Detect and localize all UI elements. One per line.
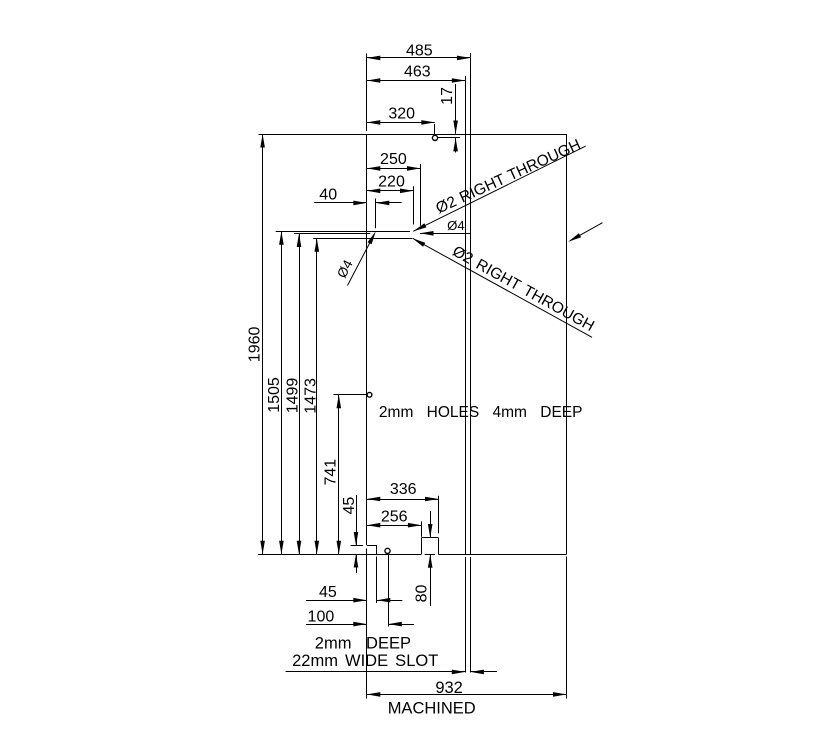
hole at bottom edge — [385, 548, 390, 553]
dimension 741 top arrow — [337, 395, 342, 409]
extension line for 320/hole — [434, 124, 436, 135]
dimension 463 left arrow — [367, 78, 381, 83]
view arrow head — [568, 233, 581, 242]
slot leader left arrow — [452, 670, 466, 675]
part right edge — [566, 134, 568, 554]
dimension 485 line — [367, 57, 471, 59]
vertical slot right line extension below — [470, 557, 472, 673]
extension line for 40 — [375, 199, 377, 229]
svg-text:1473: 1473 — [303, 378, 320, 414]
dimension 932 line — [367, 694, 567, 696]
dimension 220 line — [367, 190, 414, 192]
dimension 220 left arrow — [367, 189, 381, 194]
dimension 1505 top arrow — [279, 231, 284, 245]
dimension 45h left tail — [306, 600, 367, 602]
dimension 1499 line — [299, 234, 301, 555]
dimension 250 line — [367, 168, 421, 170]
part top edge — [259, 134, 567, 136]
extension line for 45v step — [351, 545, 364, 547]
leader Ø4 diagonal line — [348, 234, 375, 285]
svg-text:2mm DEEP: 2mm DEEP — [315, 635, 411, 653]
dimension 1499 top arrow — [297, 234, 302, 248]
dimension 1473 line — [316, 238, 318, 554]
dimension 80 lower arrow — [428, 554, 433, 568]
dimension 250 left arrow — [367, 166, 381, 171]
hole at top edge — [432, 135, 437, 140]
dimension 256 line — [367, 525, 422, 527]
svg-text:485: 485 — [406, 43, 433, 60]
leader Ø2 lower line — [412, 238, 592, 337]
extension below step — [376, 557, 378, 604]
slot leader left line — [286, 671, 465, 673]
extension line for 336 — [438, 496, 440, 534]
dimension 336 right arrow — [425, 497, 439, 502]
hole mid-left (741) — [367, 392, 372, 397]
dimension 741 bottom arrow — [337, 541, 342, 555]
svg-text:Ø4: Ø4 — [447, 218, 465, 233]
extension line at hole centre (17) — [438, 137, 460, 139]
vertical slot left line extension below — [465, 557, 467, 673]
view arrow line — [570, 223, 603, 241]
leader Ø4 horizontal line — [420, 233, 471, 235]
bottom slot pocket right edge — [438, 538, 440, 555]
dimension 45h right tail — [376, 600, 402, 602]
leader Ø2 upper arrow — [413, 223, 426, 231]
svg-text:MACHINED: MACHINED — [388, 700, 476, 718]
dimension 45v upper arrow — [354, 532, 359, 546]
extension line for 741 hole — [334, 394, 367, 396]
svg-text:2mm HOLES 4mm DEEP: 2mm HOLES 4mm DEEP — [379, 404, 583, 421]
bottom slot pocket left edge — [421, 538, 423, 555]
dimension 320 left arrow — [367, 120, 381, 125]
dimension 256 left arrow — [367, 523, 381, 528]
dimension 1960 bottom arrow — [260, 541, 265, 555]
leader Ø2 upper line — [413, 146, 585, 231]
dimension 45h right arrow — [377, 598, 391, 603]
vertical slot right line — [470, 53, 472, 554]
groove line B (1499) — [294, 233, 370, 235]
extension line for 250 — [420, 164, 422, 226]
groove line C (1473) — [313, 238, 412, 240]
vertical slot left line — [465, 76, 467, 554]
dimension 485 left arrow — [367, 56, 381, 61]
dimension 220 right arrow — [400, 189, 414, 194]
dimension 1505 line — [281, 231, 283, 554]
dimension 320 right arrow — [421, 120, 435, 125]
slot leader right arrow — [470, 670, 484, 675]
svg-text:45: 45 — [319, 584, 337, 601]
dimension 17 lower line — [455, 138, 457, 152]
dimension 40 left tail — [314, 202, 367, 204]
dimension 80 lower line — [430, 555, 432, 607]
dimension 100 right tail — [388, 624, 414, 626]
extension below bottom hole — [388, 554, 390, 627]
part bottom edge right — [438, 554, 566, 556]
dimension 1960 top arrow — [260, 134, 265, 148]
dimension 40 right arrow — [376, 201, 390, 206]
extension tick at bottom of slot (80) — [425, 554, 435, 556]
dimension 80 upper line — [430, 511, 432, 537]
extension line for 256 — [421, 521, 423, 536]
svg-text:463: 463 — [404, 64, 431, 81]
dimension 40 right tail — [376, 202, 402, 204]
leader Ø2 lower arrow — [412, 238, 425, 247]
dimension 1473 bottom arrow — [315, 541, 320, 555]
dimension 463 right arrow — [452, 78, 466, 83]
svg-text:250: 250 — [380, 151, 407, 168]
svg-text:80: 80 — [414, 585, 431, 603]
dimension 40 left arrow — [353, 201, 367, 206]
bottom-left step horizontal edge — [367, 545, 376, 547]
leader Ø4 horizontal arrow — [420, 231, 434, 236]
dimension 932 right arrow — [553, 692, 567, 697]
svg-text:17: 17 — [439, 87, 456, 105]
dimension 45h left arrow — [353, 598, 367, 603]
svg-text:256: 256 — [381, 508, 408, 525]
dimension 1960 line — [262, 134, 264, 554]
extension below right edge — [566, 557, 568, 699]
svg-text:741: 741 — [323, 459, 340, 486]
dimension 45v upper line — [356, 495, 358, 545]
svg-text:45: 45 — [341, 497, 358, 515]
svg-text:22mm WIDE SLOT: 22mm WIDE SLOT — [292, 652, 438, 670]
dimension 1499 bottom arrow — [297, 541, 302, 555]
dimension 336 line — [367, 499, 439, 501]
dimension 250 right arrow — [407, 166, 421, 171]
extension line above left edge — [366, 54, 368, 132]
svg-text:1505: 1505 — [266, 377, 283, 413]
dimension 45v lower line — [356, 554, 358, 573]
dimension 320 line — [367, 122, 435, 124]
dimension 17 upper line — [455, 84, 457, 134]
dimension 100 left tail — [306, 624, 367, 626]
dimension 100 right arrow — [388, 622, 402, 627]
dimension 1505 bottom arrow — [279, 541, 284, 555]
svg-text:220: 220 — [378, 174, 405, 191]
svg-text:1960: 1960 — [247, 327, 264, 363]
dimension 256 right arrow — [408, 523, 422, 528]
dimension 1473 top arrow — [315, 238, 320, 252]
groove line A (1505) — [276, 231, 410, 233]
leader Ø4 diagonal arrow — [368, 231, 376, 244]
dimension 741 line — [338, 395, 340, 555]
extension line for 220 — [413, 186, 415, 224]
svg-text:320: 320 — [388, 106, 415, 123]
slot leader right line — [470, 671, 497, 673]
part bottom edge / dimension baseline left — [258, 554, 422, 556]
svg-text:100: 100 — [308, 609, 335, 626]
part left edge — [366, 134, 368, 545]
dimension 336 left arrow — [367, 497, 381, 502]
dimension 485 right arrow — [457, 56, 471, 61]
bottom slot pocket top edge — [422, 537, 439, 539]
dimension 80 upper arrow — [428, 524, 433, 538]
extension below left edge — [366, 549, 368, 699]
dimension 932 left arrow — [367, 692, 381, 697]
svg-text:40: 40 — [319, 187, 337, 204]
svg-text:932: 932 — [435, 679, 463, 697]
dimension 100 left arrow — [353, 622, 367, 627]
bottom-left step vertical edge — [376, 545, 378, 554]
dimension 45v lower arrow — [354, 554, 359, 568]
svg-text:1499: 1499 — [284, 378, 301, 414]
dimension 17 upper arrow — [453, 121, 458, 135]
svg-text:336: 336 — [390, 481, 417, 498]
dimension 463 line — [367, 80, 466, 82]
dimension 17 lower arrow — [453, 138, 458, 152]
